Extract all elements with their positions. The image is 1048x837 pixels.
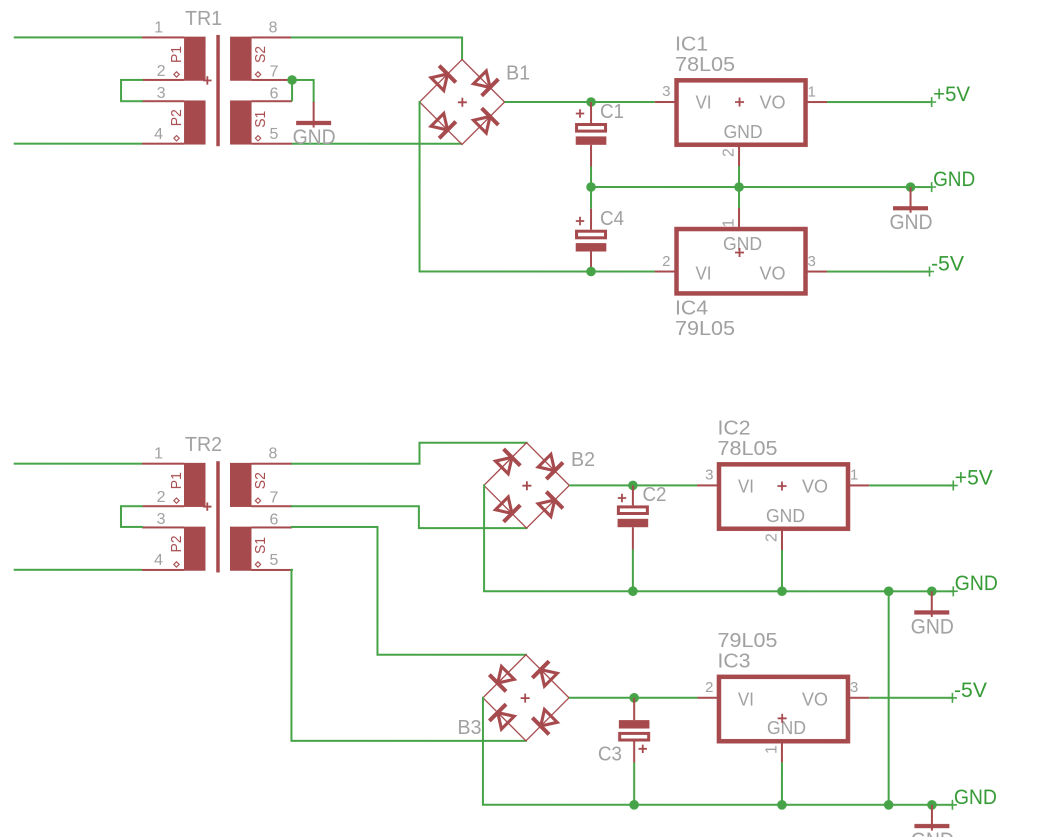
svg-text:3: 3 <box>662 83 670 100</box>
wire C3 to GND rail bottom <box>633 763 635 805</box>
C2 bottom lead <box>632 527 634 549</box>
TR1 pin 2 <box>142 79 184 81</box>
svg-text:2: 2 <box>763 533 780 542</box>
C3 top lead <box>633 698 635 720</box>
B2 diamond outline <box>484 443 569 528</box>
svg-text:-5V: -5V <box>931 253 964 276</box>
TR2 primary winding P2 <box>184 527 206 571</box>
B1 plus mark <box>458 98 467 107</box>
svg-text:78L05: 78L05 <box>717 438 777 460</box>
wire TR1 pin5 to B1 AC2 <box>292 143 462 145</box>
wire B3 minus to C3 and IC3 VI <box>569 697 698 699</box>
svg-text:P2: P2 <box>168 109 185 126</box>
TR1 core <box>216 35 220 146</box>
wire IC2 GND pin to GND rail mid <box>781 550 783 591</box>
net label -5V (bottom) <box>948 679 987 703</box>
TR2 pin 4 marker <box>174 562 179 567</box>
C3 bottom lead <box>633 741 635 762</box>
IC3 pin 3 lead <box>848 697 869 699</box>
svg-text:VO: VO <box>760 263 786 283</box>
TR2 pin 5 <box>251 569 292 571</box>
B1 diode D4 (bottom to right) <box>474 108 499 133</box>
svg-text:7: 7 <box>270 63 279 80</box>
net label GND (top) <box>927 168 975 192</box>
wire IC1 GND pin to GND rail <box>738 166 740 187</box>
TR1 origin cross <box>203 76 211 84</box>
TR2 pin 8 <box>251 463 292 465</box>
B3 diode D4 (right to bottom) <box>532 710 557 735</box>
ground symbol GND middle right <box>911 591 954 638</box>
TR2 pin 3 <box>142 526 184 528</box>
svg-text:P1: P1 <box>168 472 185 489</box>
svg-text:3: 3 <box>850 679 858 696</box>
svg-text:S2: S2 <box>252 46 269 63</box>
svg-text:IC1: IC1 <box>675 33 708 55</box>
svg-text:VO: VO <box>760 93 786 113</box>
C4 top lead <box>590 209 592 230</box>
wire TR2 pin1 input <box>14 463 142 465</box>
svg-text:GND: GND <box>724 122 763 142</box>
B3 diamond outline <box>483 655 569 741</box>
svg-text:6: 6 <box>270 85 279 102</box>
svg-text:VI: VI <box>696 92 712 112</box>
svg-text:3: 3 <box>157 511 166 528</box>
junction GND rail at IC2 GND pin <box>777 586 787 596</box>
wire B2 plus to C2 and IC2 VI <box>569 484 697 486</box>
B2 diode D3 (left to bottom) <box>495 497 520 522</box>
svg-text:4: 4 <box>154 126 163 143</box>
IC2 pin 2 lead <box>781 529 783 550</box>
svg-text:C1: C1 <box>600 101 624 123</box>
bridge rectifier B1 <box>420 59 531 144</box>
svg-text:2: 2 <box>705 679 713 696</box>
svg-text:IC4: IC4 <box>675 297 708 319</box>
svg-text:GND: GND <box>954 786 997 809</box>
TR1 pin 5 marker <box>255 136 260 141</box>
voltage regulator IC2 78L05 <box>717 417 848 528</box>
B1 diamond outline <box>420 59 505 144</box>
svg-text:B3: B3 <box>457 717 481 739</box>
TR1 pin 5 <box>252 143 293 145</box>
IC1 pin 2 lead <box>738 145 740 166</box>
polarized capacitor C3 <box>598 720 650 765</box>
svg-text:VI: VI <box>738 690 754 710</box>
B1 diode D3 (left to bottom) <box>431 113 456 138</box>
svg-text:1: 1 <box>850 467 858 484</box>
svg-text:1: 1 <box>154 446 163 463</box>
B3 diode D2 (right to top) <box>532 661 557 686</box>
IC4 pin 3 lead <box>806 271 828 273</box>
IC2 pin 1 lead <box>848 484 869 486</box>
polarized capacitor C2 <box>618 484 667 527</box>
voltage regulator IC4 79L05 <box>675 229 806 340</box>
svg-text:2: 2 <box>157 63 166 80</box>
TR1 primary winding P1 <box>184 37 206 81</box>
wire TR1 pin8 to B1 AC1 <box>292 37 462 59</box>
wire IC3 GND pin to GND rail bottom <box>781 762 783 804</box>
svg-text:79L05: 79L05 <box>717 630 777 652</box>
wire TR1 pin1 input <box>14 36 142 38</box>
wire IC1 VO to +5V <box>827 101 931 103</box>
TR2 secondary winding S1 <box>230 527 252 571</box>
junction GND rail at C2 <box>628 586 638 596</box>
junction GND rail mid at ground symbol <box>927 586 937 596</box>
svg-text:P2: P2 <box>168 535 185 552</box>
TR1 pin 7 marker <box>255 72 260 77</box>
wire B2 minus to GND rail mid <box>484 485 952 591</box>
C2 plus mark <box>618 494 626 502</box>
svg-text:VI: VI <box>738 476 754 496</box>
IC4 pin 2 lead <box>655 271 677 273</box>
svg-text:TR1: TR1 <box>185 8 222 30</box>
B1 diode D2 (top to right) <box>474 71 499 96</box>
wire GND vertical tie mid to bottom <box>888 591 890 805</box>
svg-text:3: 3 <box>808 253 816 270</box>
B3 diode D1 (top to left) <box>489 666 514 691</box>
wire TR2 pin6 to B3 AC1 <box>292 527 526 655</box>
TR1 secondary winding S2 <box>230 37 252 81</box>
TR2 core <box>216 461 220 572</box>
C1 plus mark <box>576 109 584 117</box>
svg-text:VO: VO <box>802 690 828 710</box>
TR2 pin 4 <box>142 569 184 571</box>
wire TR2 pin4 input <box>14 569 142 571</box>
svg-text:GND: GND <box>955 572 998 595</box>
svg-text:GND: GND <box>911 829 954 837</box>
svg-text:GND: GND <box>933 168 975 191</box>
TR2 pin 1 <box>142 463 184 465</box>
ground symbol GND at TR1 center tap <box>293 102 336 149</box>
C4 plus mark <box>576 217 584 225</box>
svg-text:P1: P1 <box>168 46 185 63</box>
junction GND rail mid at vertical tie <box>884 586 894 596</box>
svg-text:5: 5 <box>269 552 278 569</box>
wire TR2 pin8 to B2 AC1 <box>292 443 527 464</box>
B2 plus mark <box>522 481 531 490</box>
svg-text:VI: VI <box>696 263 712 283</box>
wire C2 to GND rail mid <box>632 550 634 592</box>
junction GND rail at C1/C4 <box>586 182 596 192</box>
C4 bottom lead <box>590 251 592 271</box>
junction GND rail at IC1/IC4 GND pins <box>734 182 744 192</box>
net label GND (middle) <box>949 572 998 596</box>
B3 plus mark <box>521 694 530 703</box>
svg-text:6: 6 <box>269 511 278 528</box>
svg-text:5: 5 <box>270 126 279 143</box>
polarized capacitor C1 <box>576 101 624 145</box>
junction node VIN+ at C1 <box>586 97 596 107</box>
net label +5V (bottom) <box>949 466 993 490</box>
svg-text:GND: GND <box>911 615 954 638</box>
junction node B2+ at C2 <box>628 481 638 491</box>
wire IC4 VO to -5V <box>827 271 929 273</box>
B2 diode D1 (left to top) <box>495 449 520 474</box>
IC1 pin 3 lead <box>655 101 677 103</box>
svg-text:GND: GND <box>293 126 336 149</box>
wire IC3 VO to -5V <box>869 697 952 699</box>
svg-text:C4: C4 <box>600 208 624 230</box>
junction node B3- at C3 <box>629 693 639 703</box>
wire B3 plus to GND rail bottom <box>483 698 952 805</box>
TR2 pin 7 marker <box>255 498 260 503</box>
TR1 pin 4 marker <box>174 136 179 141</box>
svg-text:2: 2 <box>662 253 670 270</box>
polarized capacitor C4 <box>576 208 624 252</box>
svg-text:S1: S1 <box>252 537 269 554</box>
IC3 pin 1 lead <box>781 741 783 762</box>
svg-text:GND: GND <box>890 211 933 234</box>
C1 bottom lead <box>590 145 592 167</box>
TR2 pin 5 marker <box>255 562 260 567</box>
svg-text:GND: GND <box>723 234 762 254</box>
TR1 pin 8 <box>252 36 293 38</box>
B2 diode D2 (top to right) <box>538 454 563 479</box>
svg-text:-5V: -5V <box>954 679 987 702</box>
B2 diode D4 (bottom to right) <box>538 492 563 517</box>
TR1 secondary winding S1 <box>230 100 252 144</box>
svg-text:4: 4 <box>154 552 163 569</box>
svg-text:7: 7 <box>269 490 278 507</box>
junction node VIN- at C4 <box>586 267 596 277</box>
junction GND rail bottom at vertical tie <box>884 800 894 810</box>
wire TR2 pin5 to B3 AC2 <box>291 570 526 741</box>
svg-text:78L05: 78L05 <box>675 54 735 76</box>
svg-text:1: 1 <box>763 745 780 754</box>
ground symbol GND top right <box>890 187 933 234</box>
C3 plus mark <box>639 745 647 753</box>
bridge rectifier B2 <box>484 443 595 528</box>
TR1 pin 6 <box>252 100 293 102</box>
B1 diode D1 (left to top) <box>431 66 456 91</box>
wire TR1 center tap to ground <box>292 80 314 102</box>
B3 diode D3 (bottom to left) <box>489 704 514 729</box>
svg-text:2: 2 <box>721 148 738 157</box>
svg-text:VO: VO <box>802 477 828 497</box>
svg-text:1: 1 <box>721 219 738 228</box>
wire B1 minus to C4 and IC4 VI <box>420 102 655 272</box>
TR2 origin cross <box>203 502 211 510</box>
C1 top lead <box>590 102 592 123</box>
svg-text:8: 8 <box>269 19 278 36</box>
svg-text:8: 8 <box>268 446 277 463</box>
wire GND rail to IC4 GND pin <box>738 187 740 208</box>
transformer TR2 <box>142 434 292 572</box>
TR1 pins 6-7 link wire <box>291 80 293 101</box>
wire TR2 pin7 to B2 AC2 <box>292 506 527 528</box>
IC2 pin 3 lead <box>697 484 719 486</box>
junction GND rail bottom at C3 <box>629 800 639 810</box>
svg-text:IC2: IC2 <box>717 417 750 439</box>
wire GND rail top circuit <box>591 186 931 188</box>
TR1 pin 1 <box>142 36 184 38</box>
svg-text:+5V: +5V <box>933 83 970 106</box>
wire IC2 VO to +5V <box>869 484 953 486</box>
wire TR1 pin2-pin3 loop <box>121 80 142 101</box>
wire B1 plus to C1 and IC1 VI <box>505 101 655 103</box>
svg-text:+5V: +5V <box>955 466 993 489</box>
TR2 primary winding P1 <box>184 463 206 507</box>
IC2 plus mark <box>777 482 786 491</box>
svg-text:S2: S2 <box>252 472 269 489</box>
svg-text:C3: C3 <box>598 744 622 766</box>
junction GND rail bottom at ground symbol <box>927 800 937 810</box>
wire TR2 pin2-pin3 loop <box>121 506 142 527</box>
TR2 pin 2 <box>142 505 184 507</box>
IC1 plus mark <box>735 98 744 107</box>
svg-text:IC3: IC3 <box>717 650 750 672</box>
voltage regulator IC1 78L05 <box>675 33 806 144</box>
TR1 pin 2 marker <box>174 72 179 77</box>
TR2 pin 2 marker <box>174 498 179 503</box>
transformer TR1 <box>142 8 292 146</box>
TR2 pin 7 <box>251 505 292 507</box>
IC4 pin 1 lead <box>738 208 740 229</box>
svg-text:GND: GND <box>767 718 806 738</box>
C2 top lead <box>632 485 634 505</box>
net label +5V (top) <box>927 83 970 107</box>
svg-text:1: 1 <box>154 19 163 36</box>
svg-text:B1: B1 <box>506 62 530 84</box>
svg-text:GND: GND <box>766 506 805 526</box>
TR2 secondary winding S2 <box>230 463 252 507</box>
TR1 pin 4 <box>142 143 184 145</box>
bridge rectifier B3 <box>457 655 569 741</box>
IC1 pin 1 lead <box>806 101 828 103</box>
voltage regulator IC3 79L05 <box>717 630 848 741</box>
net label GND (bottom) <box>948 786 997 810</box>
junction GND rail bottom at IC3 GND pin <box>777 800 787 810</box>
net label -5V (top) <box>925 253 964 277</box>
svg-text:B2: B2 <box>571 449 595 471</box>
IC3 plus mark <box>778 714 787 723</box>
IC3 pin 2 lead <box>697 697 719 699</box>
svg-text:1: 1 <box>808 84 816 101</box>
TR2 pin 6 <box>251 526 292 528</box>
TR1 pin 7 <box>252 79 293 81</box>
svg-text:79L05: 79L05 <box>675 318 735 340</box>
junction GND rail at ground symbol <box>906 182 916 192</box>
wire C1 to GND rail <box>590 167 592 188</box>
TR1 pin 3 <box>142 100 184 102</box>
wire GND rail to C4 <box>590 187 592 209</box>
svg-text:3: 3 <box>157 85 166 102</box>
wire TR1 pin4 input <box>14 143 142 145</box>
TR1 primary winding P2 <box>184 100 206 144</box>
svg-text:S1: S1 <box>252 111 269 128</box>
svg-text:TR2: TR2 <box>185 434 222 456</box>
ground symbol GND bottom right <box>911 805 954 837</box>
IC4 plus mark <box>735 248 744 257</box>
junction TR1 pins 6-7 center tap <box>287 75 297 85</box>
svg-text:3: 3 <box>705 467 713 484</box>
svg-text:C2: C2 <box>642 484 666 506</box>
svg-text:2: 2 <box>157 489 166 506</box>
